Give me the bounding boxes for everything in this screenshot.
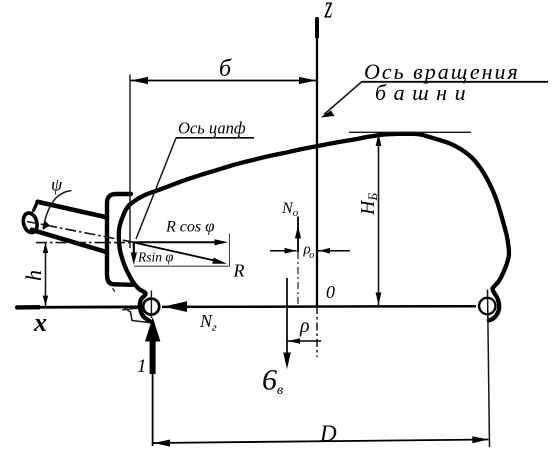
dimension Hb vertical with arrows	[378, 134, 380, 306]
dimension b: horizontal dimension line	[130, 80, 317, 82]
callout axis of rotation: leader with arrow	[324, 82, 362, 115]
left roller centerline	[150, 291, 152, 319]
dimension h: vertical line with arrows	[45, 243, 47, 306]
z axis	[316, 17, 318, 306]
force 1 (reaction) thick up arrow	[145, 317, 160, 341]
svg-text:z: z	[324, 0, 333, 25]
angle psi arc with arrowhead	[43, 191, 71, 230]
x axis base line left segment	[15, 305, 143, 308]
gun barrel muzzle cap	[21, 211, 39, 234]
svg-text:h: h	[21, 270, 46, 281]
force No up arrow	[297, 217, 299, 253]
gun barrel bottom edge	[32, 230, 105, 252]
svg-text:Rsin φ: Rsin φ	[137, 250, 173, 266]
gun barrel top edge	[38, 202, 108, 218]
force Rcos(phi) arrow	[134, 241, 221, 243]
svg-text:x: x	[33, 308, 47, 337]
gun mantlet	[107, 194, 133, 285]
svg-text:R: R	[233, 261, 245, 281]
force Gv line with down arrow	[286, 278, 288, 353]
svg-text:R cos φ: R cos φ	[165, 217, 215, 236]
barrel axis centerline (dash-dot)	[27, 222, 134, 243]
small tick artifact	[113, 288, 115, 291]
svg-text:башни: башни	[375, 80, 473, 105]
svg-text:Ось цапф: Ось цапф	[178, 119, 246, 138]
force Rsin(phi) arrow	[133, 242, 135, 258]
left roller circle	[143, 299, 159, 315]
hull race lines near left roller	[124, 308, 149, 323]
svg-text:0: 0	[326, 282, 335, 302]
force Ng horizontal arrow at left roller	[164, 301, 188, 312]
dimension D	[154, 440, 489, 444]
decomposition rectangle thin sides	[229, 234, 231, 267]
z axis below origin (dash-dot)	[316, 306, 318, 357]
svg-text:б: б	[219, 56, 232, 82]
svg-text:D: D	[319, 421, 337, 446]
svg-text:1: 1	[137, 356, 147, 377]
right roller circle	[479, 298, 495, 314]
horizontal axis through trunnion (dash-dot)	[36, 242, 134, 244]
b left extension line down to trunnion	[129, 75, 131, 249]
right roller centerline / D extension	[488, 290, 490, 448]
callout line Os tsapf to trunnion	[136, 138, 176, 239]
resultant R arrow	[134, 243, 220, 262]
turret body outline	[119, 134, 509, 322]
top reference line at turret roof	[349, 131, 471, 133]
svg-text:ψ: ψ	[51, 175, 63, 195]
dimension rho	[288, 340, 322, 342]
dimension rho0	[270, 250, 297, 252]
svg-text:ρ: ρ	[299, 315, 310, 337]
base line main segment	[162, 305, 476, 308]
